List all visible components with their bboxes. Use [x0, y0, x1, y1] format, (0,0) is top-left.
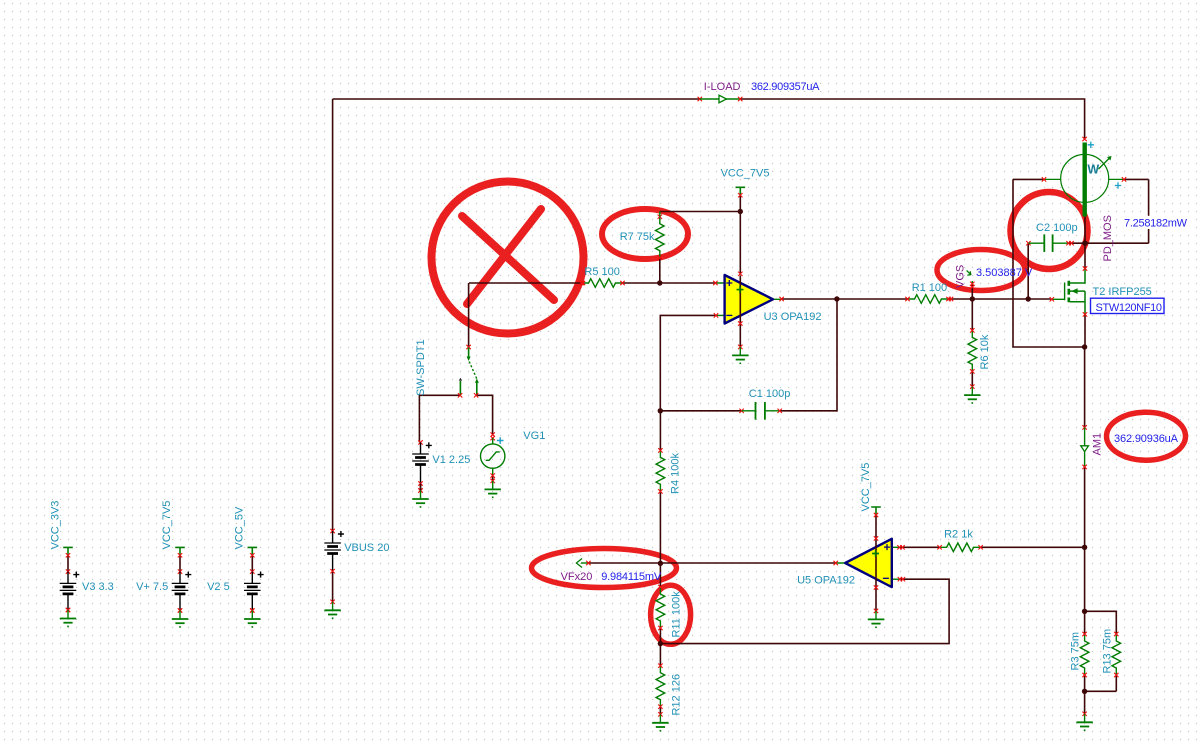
- svg-text:U3 OPA192: U3 OPA192: [764, 311, 822, 323]
- net tap VCC_7V5 (above U5): [860, 463, 881, 518]
- svg-text:R4 100k: R4 100k: [670, 453, 682, 494]
- annotation: big red circle with X over switch wiring: [432, 182, 584, 334]
- wire U3 V- to ground: [739, 324, 741, 347]
- resistor R1 100: [905, 282, 950, 303]
- resistor R11 100k: [656, 585, 682, 638]
- wire U5 +in to R2: [900, 546, 940, 548]
- svg-text:3.503887 V: 3.503887 V: [976, 267, 1033, 279]
- wire switch throw B to VG1: [476, 395, 493, 434]
- wire VCC_3V3 tap to V3: [67, 555, 69, 571]
- svg-text:V2 5: V2 5: [207, 581, 230, 593]
- svg-text:U5 OPA192: U5 OPA192: [797, 575, 855, 587]
- wire VBUS drop: [332, 99, 334, 531]
- svg-text:VCC_5V: VCC_5V: [234, 506, 246, 549]
- svg-text:VBUS 20: VBUS 20: [344, 542, 389, 554]
- net tap VCC_7V5 (left): [161, 501, 185, 558]
- capacitor C1 100p: [739, 388, 790, 420]
- svg-text:W: W: [1087, 162, 1099, 176]
- wire MOSFET source to node: [1084, 314, 1086, 347]
- resistor R2 1k: [937, 529, 982, 552]
- svg-text:VG1: VG1: [523, 430, 545, 442]
- pin marks R1/R5 wire ends: [581, 281, 953, 301]
- svg-text:R2 1k: R2 1k: [944, 529, 973, 541]
- ammeter AM1: [1081, 425, 1104, 469]
- wire top rail right (I-LOAD to W meter): [740, 99, 1084, 139]
- wire R4 to R11: [659, 492, 661, 588]
- ground of V1 2.25: [412, 488, 428, 507]
- annotation: red ellipse around R11: [651, 585, 691, 644]
- net tap VCC_7V5 (above U3): [721, 167, 770, 197]
- wire C1 left lead wire: [660, 410, 741, 412]
- svg-text:VCC_7V5: VCC_7V5: [721, 167, 770, 179]
- wire VBUS to ground: [332, 571, 334, 602]
- wire to R3 top: [1084, 611, 1086, 634]
- wire R5 to U3 +in: [622, 282, 716, 284]
- svg-text:VFx20: VFx20: [561, 571, 593, 583]
- svg-text:V1 2.25: V1 2.25: [432, 454, 470, 466]
- wire U3 -in loop: [660, 315, 716, 410]
- wire R6 to ground: [971, 371, 973, 386]
- ammeter I-LOAD: [698, 95, 743, 103]
- net tap VCC_3V3: [50, 501, 73, 558]
- resistor R7 75k: [620, 212, 664, 260]
- svg-text:PD_MOS: PD_MOS: [1102, 215, 1114, 261]
- wire top rail left (VBUS to I-LOAD): [333, 98, 700, 100]
- wire VCC_7V5 to U3 V+: [739, 195, 741, 274]
- ground of R12: [652, 712, 668, 731]
- wire W left sense to source node: [1013, 179, 1085, 347]
- svg-text:VCC_7V5: VCC_7V5: [860, 463, 872, 512]
- wire R11 to R12: [659, 628, 661, 666]
- svg-text:R12 126: R12 126: [671, 674, 683, 716]
- resistor R5 100: [579, 266, 624, 287]
- wire source node to AM1: [1084, 347, 1086, 427]
- resistor R6 10k: [968, 328, 991, 373]
- svg-text:R13 75m: R13 75m: [1102, 629, 1114, 674]
- svg-text:V+ 7.5: V+ 7.5: [136, 581, 168, 593]
- voltage source V2 5: [207, 569, 264, 612]
- resistor R12 126: [656, 664, 682, 716]
- wire W bar to drain: [1084, 217, 1086, 269]
- wire U3 output to R1: [782, 298, 908, 300]
- svg-text:C1 100p: C1 100p: [749, 388, 791, 400]
- svg-text:R7 75k: R7 75k: [620, 231, 655, 243]
- wire R2 to right rail: [980, 546, 1084, 548]
- wire VCC_5V tap to V2: [251, 555, 253, 571]
- voltage source V1 2.25: [412, 440, 470, 493]
- part number box STW120NF10: [1091, 298, 1165, 314]
- resistor R13 75m: [1102, 629, 1121, 677]
- svg-text:7.258182mW: 7.258182mW: [1124, 218, 1188, 230]
- op-amp U3 OPA192: [713, 272, 821, 326]
- wire VCC_7V5 tap to V+: [179, 555, 181, 571]
- junction nodes: [657, 209, 1088, 694]
- svg-text:STW120NF10: STW120NF10: [1096, 302, 1163, 314]
- wire R13 bottom link: [1085, 675, 1117, 691]
- ground of R3/R13: [1076, 712, 1092, 731]
- wire R7 bottom to U3 +in node: [659, 258, 661, 283]
- ground of U5: [868, 609, 884, 628]
- svg-text:R6 10k: R6 10k: [979, 334, 991, 369]
- wire R3 bottom: [1084, 675, 1086, 691]
- wire C1 node to R4: [659, 411, 661, 451]
- wire U5 -in feedback loop: [660, 579, 949, 643]
- svg-text:I-LOAD: I-LOAD: [704, 81, 741, 93]
- ground of V2 5: [244, 608, 260, 627]
- wire drop to switch common: [468, 283, 470, 347]
- wire V1 to ground: [420, 484, 422, 491]
- voltage generator VG1: [481, 430, 546, 483]
- svg-text:V3 3.3: V3 3.3: [82, 581, 114, 593]
- wire VG1 to ground: [492, 476, 494, 481]
- annotation: red circle around C2: [1011, 192, 1088, 269]
- value PD_MOS power: [1122, 216, 1190, 230]
- wire switch to R5: [469, 282, 583, 284]
- wire to bottom ground: [1084, 691, 1086, 714]
- wire W right sense drop: [1148, 179, 1150, 243]
- svg-text:362.90936uA: 362.90936uA: [1114, 433, 1179, 445]
- svg-text:9.984115mV: 9.984115mV: [601, 571, 662, 583]
- svg-text:362.909357uA: 362.909357uA: [751, 81, 820, 93]
- wire C1 right to U3 output: [780, 299, 837, 411]
- annotation: red ellipse around AM1 value: [1107, 412, 1186, 460]
- svg-text:VCC_3V3: VCC_3V3: [50, 501, 62, 550]
- svg-text:SW-SPDT1: SW-SPDT1: [415, 339, 427, 396]
- wire W left sense link: [1013, 178, 1044, 180]
- svg-text:T2 IRFP255: T2 IRFP255: [1093, 286, 1152, 298]
- resistor R4 100k: [656, 448, 681, 494]
- svg-text:R5 100: R5 100: [584, 266, 619, 278]
- svg-text:VCC_7V5: VCC_7V5: [161, 501, 173, 550]
- wire W right sense link: [1124, 178, 1149, 180]
- power meter W (PD_MOS): [1042, 137, 1126, 217]
- wire VCC_7V5 to U5 V+: [875, 515, 877, 538]
- svg-text:R3 75m: R3 75m: [1070, 632, 1082, 671]
- wire VFx20 node to U5 output: [588, 562, 835, 564]
- wire gate node to R6: [971, 299, 973, 330]
- annotation: red ellipse around VFx20 value: [532, 549, 677, 588]
- svg-text:AM1: AM1: [1092, 433, 1104, 456]
- wire R1 to MOSFET gate rail: [949, 298, 1052, 300]
- wire U5 V- to ground: [875, 588, 877, 611]
- wire R12 to ground: [659, 707, 661, 714]
- ground of V+ 7.5: [172, 608, 188, 627]
- ground of VG1: [485, 481, 501, 497]
- ground of R6: [964, 384, 980, 403]
- annotation: red ellipse around R7: [602, 209, 688, 259]
- wire C2 right rail: [1069, 242, 1149, 244]
- wire C2 left to gate node: [1027, 243, 1029, 299]
- voltage source VBUS 20: [324, 529, 389, 574]
- svg-text:VGS: VGS: [955, 265, 967, 288]
- svg-text:R1 100: R1 100: [912, 282, 947, 294]
- capacitor C2 100p: [1026, 222, 1077, 252]
- ground of U3: [732, 345, 748, 364]
- svg-text:C2 100p: C2 100p: [1036, 222, 1078, 234]
- wire VGS pin to node: [971, 285, 973, 299]
- wire R7 top to VCC node: [660, 211, 741, 213]
- net tap VCC_5V: [234, 506, 258, 557]
- ground of V3 3.3: [60, 608, 76, 627]
- ground of VBUS 20: [324, 600, 340, 619]
- wire switch throw A to V1: [419, 395, 460, 442]
- op-amp U5 OPA192: [797, 536, 905, 590]
- wire AM1 down right rail: [1084, 467, 1086, 611]
- svg-text:R11 100k: R11 100k: [671, 591, 683, 638]
- wire V1 to ground: [420, 484, 422, 491]
- voltmeter VFx20: [561, 559, 593, 584]
- annotation: red ellipse around VGS value: [937, 250, 1025, 291]
- voltage source V+ 7.5: [136, 569, 191, 612]
- voltmeter VGS: [955, 265, 975, 289]
- switch SW-SPDT1: [415, 339, 479, 397]
- wire R13 top link: [1085, 611, 1117, 634]
- voltage source V3 3.3: [60, 569, 114, 612]
- resistor R3 75m: [1070, 632, 1089, 677]
- transistor T2 IRFP255 (NMOS): [1050, 266, 1152, 316]
